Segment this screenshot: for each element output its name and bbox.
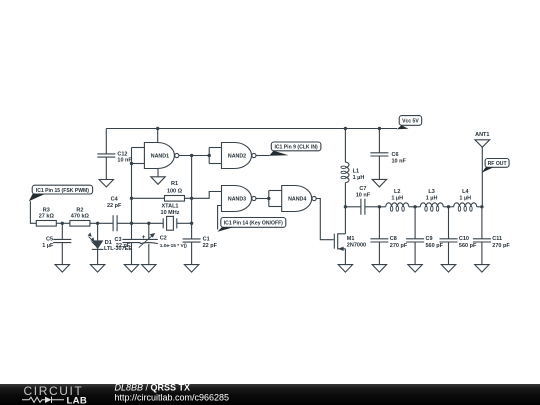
capacitor C3 (123, 239, 141, 242)
wire NAND1 output (179, 155, 209, 157)
svg-text:+: + (142, 234, 146, 241)
wire rail to NAND1 top (157, 129, 159, 143)
svg-text:22 pF: 22 pF (203, 243, 218, 249)
svg-text:L2: L2 (394, 189, 400, 195)
svg-text:M1: M1 (347, 236, 355, 242)
wire NAND1 to ground (157, 169, 159, 177)
svg-text:C11: C11 (492, 236, 502, 242)
capacitor C6 (370, 153, 388, 156)
svg-text:IC1 Pin 9 (CLK IN): IC1 Pin 9 (CLK IN) (274, 145, 318, 151)
wire to C10 (448, 207, 450, 239)
svg-text:L4: L4 (462, 189, 469, 195)
wire R1 right to NAND3 input A (185, 192, 222, 199)
svg-text:560 pF: 560 pF (426, 243, 444, 249)
node C2 (147, 222, 150, 225)
svg-text:C2: C2 (160, 235, 167, 241)
footer bar (0, 384, 540, 405)
capacitor C12 (97, 154, 115, 157)
wire R3 to R2 (56, 222, 70, 224)
wire C10 to ground (448, 242, 450, 264)
flag Vcc 5V (399, 116, 422, 126)
diode D1 LED (92, 240, 104, 249)
wire rail to C12 (105, 129, 107, 154)
svg-text:C12: C12 (117, 151, 127, 157)
svg-text:10 MHz: 10 MHz (161, 210, 180, 216)
wire to C3 (131, 223, 133, 239)
ground C11 (475, 265, 489, 273)
resistor R3 (36, 221, 56, 227)
wire M1 drain up (344, 207, 346, 234)
wire D1 to ground (97, 249, 99, 264)
svg-text:470 kΩ: 470 kΩ (71, 214, 90, 220)
svg-text:ANT1: ANT1 (475, 132, 489, 138)
svg-text:DL8BB / QRSS TX: DL8BB / QRSS TX (115, 383, 191, 393)
svg-text:560 pF: 560 pF (459, 243, 477, 249)
transistor M1 (334, 233, 345, 249)
inductor L2 (386, 203, 409, 207)
node NAND1 out branch (190, 154, 193, 157)
node C1/out (190, 222, 193, 225)
wire C4 to XTAL1 (117, 222, 163, 224)
node NAND4 inputs (267, 197, 270, 200)
node RF out (480, 205, 483, 208)
inductor L3 (420, 203, 443, 207)
op-amp U1 NAND1 gate (144, 143, 174, 169)
node C8/L2 (378, 205, 381, 208)
node C10/L4 (447, 205, 450, 208)
ground C8 (372, 265, 386, 273)
wire NAND4 input tie (268, 191, 270, 207)
wire C3 to ground (131, 243, 133, 265)
wire R1 left (132, 197, 165, 199)
wire L1 to drain node (344, 183, 346, 207)
node C3/feedback (130, 222, 133, 225)
wire C6 to ground (378, 156, 380, 179)
svg-text:1 µH: 1 µH (426, 196, 438, 202)
svg-text:C5: C5 (46, 236, 53, 242)
capacitor C4 (113, 215, 117, 231)
wire to C5 (61, 223, 63, 239)
wire NAND2 input tie (208, 148, 210, 164)
flag IC1 Pin 15 (FSK PWM) (32, 185, 92, 194)
wire to L2 (379, 206, 385, 208)
capacitor C11 (473, 239, 491, 242)
ground C5 (55, 265, 69, 273)
svg-text:1 µH: 1 µH (391, 196, 403, 202)
capacitor C9 (406, 239, 424, 242)
svg-text:NAND1: NAND1 (151, 154, 169, 160)
wire NAND1 input A (132, 147, 145, 149)
wire C5 to ground (61, 243, 63, 265)
node R1/NAND1-out (190, 197, 193, 200)
crystal XTAL1 (163, 218, 177, 228)
resistor R2 (70, 221, 90, 227)
svg-text:C9: C9 (426, 236, 433, 242)
ground C1 (184, 265, 198, 273)
node drain/C7 (344, 205, 347, 208)
svg-text:10 nF: 10 nF (392, 158, 407, 164)
op-amp U3 NAND3 gate (222, 186, 252, 212)
ground NAND1 (151, 177, 165, 185)
ground C6 (372, 179, 386, 187)
capacitor C8 (370, 239, 388, 242)
wire NAND1 out down to crystal (191, 156, 193, 224)
ground C10 (441, 265, 455, 273)
svg-text:10 nF: 10 nF (117, 158, 132, 164)
svg-text:R1: R1 (171, 181, 178, 187)
resistor R1 (165, 196, 185, 202)
wire NAND2 output (256, 155, 269, 157)
wire rail to C6 (378, 129, 380, 153)
capacitor C5 (53, 239, 71, 242)
svg-text:NAND3: NAND3 (228, 197, 246, 203)
svg-text:22 pF: 22 pF (116, 243, 131, 249)
svg-text:XTAL1: XTAL1 (161, 204, 178, 210)
wire NAND3 input B to key flag (218, 206, 222, 230)
wire C1 to ground (191, 242, 193, 264)
svg-text:L1: L1 (353, 169, 359, 175)
op-amp U2 NAND2 gate (222, 143, 252, 169)
flag IC1 Pin 9 (CLK IN) (271, 142, 321, 151)
node NAND1 inputs (130, 162, 133, 165)
svg-text:IC1 Pin 14 (Key ON/OFF): IC1 Pin 14 (Key ON/OFF) (224, 221, 283, 227)
wire L4 to output node (477, 206, 482, 208)
wire C8 to ground (378, 242, 380, 264)
svg-text:C10: C10 (459, 236, 469, 242)
capacitor C2 variable (140, 238, 158, 240)
flag RF OUT (485, 159, 509, 168)
svg-text:C6: C6 (392, 152, 399, 158)
svg-text:1.0e-15 * V(): 1.0e-15 * V() (160, 243, 188, 249)
wire Vcc top rail (106, 128, 397, 130)
svg-text:IC1 Pin 15 (FSK PWM): IC1 Pin 15 (FSK PWM) (36, 188, 90, 194)
wire rail to L1 (344, 129, 346, 163)
node R3/C5 (61, 222, 64, 225)
wire NAND2 input A (209, 147, 221, 149)
wire to C9 (414, 207, 416, 239)
svg-text:270 pF: 270 pF (492, 243, 510, 249)
svg-text:L3: L3 (428, 189, 434, 195)
svg-text:C7: C7 (359, 186, 366, 192)
ground M1 (338, 265, 352, 273)
wire NAND3 output (256, 198, 269, 200)
wire C12 to ground (105, 157, 107, 179)
wire C9 to ground (414, 242, 416, 264)
footer text (115, 383, 230, 403)
ground C2 (142, 265, 156, 273)
wire M1 source to ground (344, 249, 346, 265)
wire to C2 (148, 223, 150, 239)
svg-text:NAND2: NAND2 (228, 154, 246, 160)
wire NAND1 input B (132, 163, 145, 165)
svg-text:http://circuitlab.com/c966285: http://circuitlab.com/c966285 (115, 393, 230, 403)
node feedback/R1 (130, 197, 133, 200)
svg-text:C1: C1 (203, 236, 210, 242)
CircuitLab logo (22, 384, 87, 405)
inductor L1 (345, 162, 349, 182)
capacitor C10 (440, 239, 458, 242)
node rail/NAND1-vdd (156, 127, 159, 130)
node NAND2 inputs (208, 154, 211, 157)
capacitor C7 (361, 199, 365, 215)
wire XTAL1 to C1 (177, 222, 192, 224)
wire C7 to LPF (365, 206, 380, 208)
wire C2 to ground (148, 244, 150, 265)
wire NAND4 input B (269, 206, 282, 208)
ground C3 (124, 265, 138, 273)
wire R2 to C4 (90, 222, 113, 224)
svg-text:C8: C8 (390, 236, 397, 242)
wire NAND1 input feedback down (131, 164, 133, 224)
svg-text:10 nF: 10 nF (356, 193, 371, 199)
node rail/L1 (344, 127, 347, 130)
capacitor C1 (183, 239, 201, 242)
wire drain to C7 (345, 206, 361, 208)
svg-text:100 Ω: 100 Ω (167, 188, 183, 194)
node rail/C6 (378, 127, 381, 130)
svg-text:D1: D1 (105, 240, 112, 246)
wire L3 to L4 (443, 206, 453, 208)
svg-text:1 µF: 1 µF (42, 243, 54, 249)
svg-text:2N7000: 2N7000 (347, 243, 366, 249)
antenna ANT1 (475, 140, 490, 147)
wire NAND2 input B (209, 163, 221, 165)
svg-text:NAND4: NAND4 (288, 197, 306, 203)
op-amp U4 NAND4 gate (282, 186, 312, 212)
wire flag to R3 (30, 201, 36, 223)
svg-text:LAB: LAB (67, 395, 88, 405)
wire NAND1 input tie (131, 148, 133, 164)
node R2/D1 (96, 222, 99, 225)
wire NAND4 input A (269, 190, 282, 192)
wire NAND4 output to M1 gate (316, 199, 334, 240)
svg-text:27 kΩ: 27 kΩ (39, 214, 55, 220)
ground D1 (90, 265, 104, 273)
node C9/L3 (413, 205, 416, 208)
svg-text:Vcc 5V: Vcc 5V (402, 119, 419, 125)
wire to C8 (378, 207, 380, 239)
inductor L4 (454, 203, 477, 207)
wire to D1 (97, 223, 99, 240)
svg-text:C4: C4 (111, 197, 119, 203)
wire to C11 (481, 207, 483, 239)
wire L2 to L3 (409, 206, 421, 208)
svg-text:1 µH: 1 µH (353, 175, 365, 181)
wire to C1 (191, 223, 193, 239)
ground C12 (99, 180, 113, 188)
ground C9 (408, 265, 422, 273)
svg-text:270 pF: 270 pF (390, 243, 408, 249)
wire C11 to ground (481, 242, 483, 264)
flag IC1 Pin 14 (Key ON/OFF) (221, 218, 286, 228)
svg-text:1 µH: 1 µH (459, 196, 471, 202)
svg-text:22 pF: 22 pF (107, 203, 122, 209)
svg-text:RF OUT: RF OUT (488, 161, 508, 167)
